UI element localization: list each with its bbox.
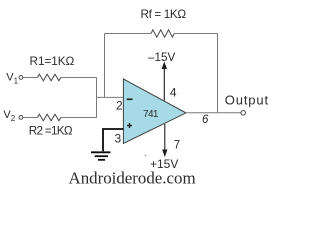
svg-text:1: 1 [14, 77, 19, 86]
resistor R1 zigzag [38, 74, 61, 81]
ground [91, 151, 111, 153]
svg-text:2: 2 [116, 98, 123, 112]
wire: output [186, 112, 241, 114]
svg-text:3: 3 [115, 132, 122, 146]
resistor Rf zigzag [151, 30, 174, 37]
wire: V1 to R1 [23, 77, 38, 79]
wire: feedback top-left horizontal segment [105, 33, 152, 35]
svg-text:–15V: –15V [148, 51, 176, 64]
wire: summing node vertical [96, 78, 98, 118]
wire: pin 3 to ground [103, 129, 123, 151]
wire: feedback left vertical [104, 34, 106, 98]
op-amp U1 741 triangle [123, 79, 186, 144]
svg-text:7: 7 [174, 140, 180, 152]
svg-text:Rf = 1KΩ: Rf = 1KΩ [141, 8, 187, 21]
svg-text:R1=1KΩ: R1=1KΩ [30, 55, 75, 68]
wire: V2 to R2 [23, 117, 38, 119]
wire: R2 to node [61, 117, 97, 119]
supply arrow up to pin 4 [163, 68, 165, 101]
plus sign non-inverting input [127, 125, 132, 127]
terminal output [241, 111, 246, 116]
wire: feedback top-right horizontal segment [174, 33, 217, 35]
svg-text:2: 2 [11, 114, 16, 123]
wire: feedback right vertical [217, 34, 219, 113]
terminal V1 [19, 76, 23, 80]
stray dot [145, 155, 147, 157]
svg-text:Output: Output [225, 93, 269, 108]
terminal V2 [19, 116, 23, 120]
minus sign inverting input [127, 98, 133, 100]
svg-text:Androiderode.com: Androiderode.com [69, 168, 196, 186]
svg-text:741: 741 [143, 109, 159, 120]
supply arrow down to pin 7 [164, 124, 166, 151]
svg-text:4: 4 [170, 85, 177, 99]
svg-text:R2 =1KΩ: R2 =1KΩ [29, 124, 73, 137]
svg-text:6: 6 [202, 114, 209, 126]
resistor R2 zigzag [38, 114, 61, 121]
wire: node to pin 2 [97, 96, 124, 98]
wire: R1 to node [61, 77, 97, 79]
